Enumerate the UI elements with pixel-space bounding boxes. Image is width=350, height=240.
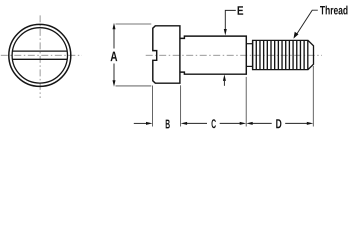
extension line: head left face	[152, 86, 154, 127]
extension line: shoulder end	[245, 77, 247, 127]
dimension E leader	[225, 10, 236, 29]
label E	[238, 6, 244, 15]
thread callout arrowhead	[294, 32, 299, 39]
dimension E bottom arrowhead	[223, 74, 226, 81]
label D	[276, 119, 281, 128]
dimension A extension line top	[116, 23, 152, 25]
drive slot top edge (front view)	[13, 50, 68, 52]
dimension C line left segment	[187, 122, 207, 124]
dimension E top arrowhead	[224, 29, 227, 36]
drive slot bottom edge (front view)	[12, 58, 67, 60]
dimension D right arrowhead	[307, 122, 314, 125]
label Thread	[320, 6, 348, 15]
centerline: front-view horizontal	[1, 54, 82, 56]
screw head inner rim circle (front view)	[12, 28, 67, 83]
dimension B left arrowhead	[146, 122, 153, 125]
screw head outer circle (front view)	[9, 24, 71, 86]
dimension E bottom tail	[223, 81, 225, 86]
dimension B left shaft	[134, 122, 147, 124]
dimension C left arrowhead (B right)	[181, 122, 188, 125]
thread-relief neck bottom edge	[246, 65, 252, 67]
thread callout leader	[296, 10, 318, 36]
thread-relief neck top edge	[246, 43, 252, 45]
centerline: front-view vertical	[39, 15, 41, 98]
dimension D left arrowhead	[246, 122, 253, 125]
dimension A bottom arrowhead	[113, 80, 116, 87]
extension line: thread tip	[312, 66, 314, 127]
label A	[111, 52, 118, 62]
threaded end outline with chamfered tip	[253, 40, 314, 69]
label B	[166, 120, 170, 129]
screw head outline with slot notch (side view)	[153, 26, 180, 83]
thread crest lines	[253, 40, 308, 69]
dimension A line	[113, 29, 115, 82]
label C	[212, 119, 216, 128]
shoulder outline with head undercut (side view)	[180, 36, 246, 74]
dimension C line right segment	[220, 122, 240, 124]
extension line: head right face	[180, 85, 182, 126]
dimension A top arrowhead	[113, 23, 116, 30]
dimension C right arrowhead	[240, 122, 247, 125]
dimension D line left segment	[252, 122, 271, 124]
dimension A extension line bottom	[116, 85, 152, 87]
dimension D line right segment	[285, 122, 307, 124]
centerline: side-view axis	[146, 54, 322, 56]
